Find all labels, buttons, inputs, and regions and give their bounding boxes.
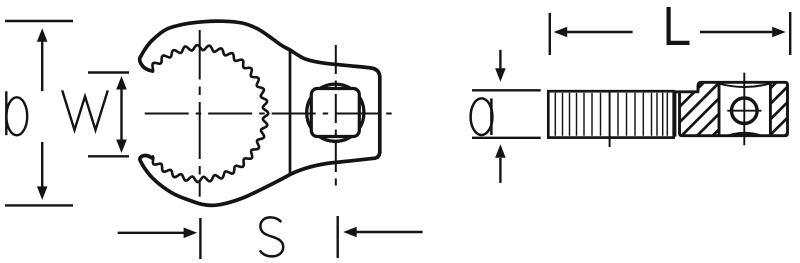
head outline side view — [674, 82, 788, 135]
dimension b bottom bar — [5, 204, 73, 206]
dimension W bottom bar — [88, 155, 129, 157]
dimension b top bar — [5, 20, 73, 22]
label b — [5, 91, 7, 135]
label S — [260, 217, 283, 256]
dimension a down arrow — [499, 50, 501, 69]
section separator right — [769, 82, 772, 135]
pin hole horizontal centerline — [727, 110, 761, 112]
dimension L left tick — [549, 13, 551, 55]
dimension W top bar — [88, 71, 129, 73]
drive hole top arc — [720, 84, 769, 87]
shaft mid tick — [609, 93, 611, 148]
dimension L right arrow — [700, 31, 774, 33]
dimension b up arrow — [41, 41, 43, 91]
wrench outer profile top — [140, 21, 380, 205]
dimension b down arrow — [41, 142, 43, 187]
serrated ring bore — [152, 45, 268, 182]
dimension L right tick — [789, 12, 791, 55]
label a — [471, 98, 493, 135]
horizontal centerline — [145, 113, 396, 115]
pin hole circle — [732, 98, 758, 124]
ring vertical centerline — [199, 30, 201, 197]
dimension S right arrow — [356, 231, 423, 233]
pin hole vertical centerline — [743, 73, 745, 146]
shaft outline — [548, 91, 673, 137]
drive boss circle — [307, 84, 364, 141]
dimension a up arrow — [499, 158, 501, 183]
dimension L left arrow — [566, 31, 633, 33]
neck line — [289, 50, 292, 175]
dimension S left tick — [199, 218, 201, 259]
label L — [669, 7, 690, 43]
dimension S right tick — [337, 216, 339, 258]
dimension a top bar — [472, 89, 541, 91]
shaft end cap bar — [674, 92, 676, 136]
dimension W arrows — [120, 87, 122, 142]
section separator left — [718, 82, 721, 135]
dimension a bottom bar — [472, 137, 541, 139]
label W — [62, 90, 108, 130]
shaft knurl lines — [555, 93, 667, 136]
square drive hole — [311, 89, 359, 137]
dimension S left arrow — [118, 232, 185, 234]
drive hole bottom arc filled — [722, 132, 768, 137]
square drive vertical centerline — [335, 45, 337, 186]
